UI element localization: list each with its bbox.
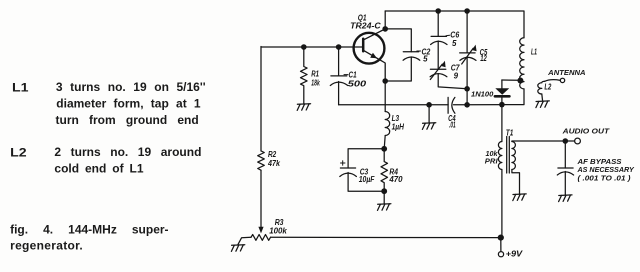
node bus ground tap [426, 102, 432, 108]
svg-text:ANTENNA: ANTENNA [547, 68, 585, 77]
inductor L2 [538, 80, 561, 101]
svg-text:C1: C1 [349, 70, 358, 79]
svg-text:470: 470 [388, 175, 403, 184]
wire: base bus from left column to transistor base [261, 46, 363, 48]
node +9V junction [498, 235, 504, 241]
ground (bus) [422, 123, 435, 130]
ground (L2) [536, 101, 549, 108]
node top bus / C6 [435, 8, 441, 14]
node L1 tap [517, 78, 523, 84]
wire: bottom supply bus [271, 236, 501, 238]
ground (T1 secondary) [513, 194, 526, 201]
svg-text:L1: L1 [531, 48, 537, 57]
wire: R3 left lead to ground [238, 237, 251, 245]
node top bus / C5 [464, 8, 470, 14]
wire: collector riser to top bus [384, 11, 386, 29]
node R4/C3 bottom junction [381, 188, 387, 194]
svg-text:diameter form, tap at 1: diameter form, tap at 1 [56, 97, 201, 111]
svg-text:L2: L2 [10, 146, 27, 160]
capacitor C3 (electrolytic) [340, 149, 384, 191]
wire: left column vertical [260, 47, 262, 151]
svg-text:R1: R1 [311, 69, 319, 78]
wire: ground bus (emitter side) [339, 104, 449, 106]
svg-text:L1: L1 [12, 81, 29, 95]
svg-text:1µH: 1µH [392, 123, 405, 132]
resistor R3 [251, 218, 287, 240]
audio out terminal [561, 126, 610, 144]
svg-text:( .001 TO .01 ): ( .001 TO .01 ) [578, 173, 632, 182]
secondary top lead to audio out [512, 140, 565, 143]
svg-text:18k: 18k [311, 78, 320, 87]
svg-text:500: 500 [348, 80, 367, 89]
capacitor C7 (variable) [430, 41, 467, 89]
ground (below R1) [297, 104, 310, 111]
node L3/R4/C3 junction [381, 146, 387, 152]
svg-text:+9V: +9V [506, 249, 523, 258]
wire: left column below R2 to wiper arrow [260, 170, 262, 228]
svg-text:.01: .01 [449, 120, 456, 129]
antenna terminal [547, 68, 585, 82]
+9V terminal [498, 238, 523, 259]
svg-text:R3: R3 [275, 218, 284, 227]
svg-text:3 turns no. 19 on 5/16'': 3 turns no. 19 on 5/16'' [56, 80, 206, 94]
capacitor C5 (variable) [460, 11, 488, 105]
svg-text:turn from ground end: turn from ground end [56, 113, 199, 127]
inductor L1 [520, 38, 538, 89]
primary lead [501, 105, 503, 142]
core [507, 137, 510, 174]
svg-text:PRI: PRI [485, 156, 499, 165]
inductor L3 [384, 81, 404, 149]
node audio/bypass junction [563, 138, 569, 144]
transistor Q1 [350, 14, 385, 81]
svg-text:10µF: 10µF [359, 175, 376, 184]
wire: junction to ground [383, 191, 385, 204]
svg-text:TR24-C: TR24-C [350, 21, 381, 30]
wire: detector bus to L1 bottom [467, 89, 524, 105]
capacitor C2 [385, 29, 431, 81]
capacitor C6 [431, 11, 460, 48]
secondary bottom lead [512, 170, 520, 195]
svg-text:1N100: 1N100 [471, 90, 494, 99]
capacitor C1 [330, 47, 367, 105]
node base-R1 junction [301, 44, 307, 50]
svg-text:L2: L2 [544, 82, 551, 91]
node collector junction [382, 26, 388, 32]
svg-text:cold end of L1: cold end of L1 [54, 162, 143, 176]
svg-text:regenerator.: regenerator. [10, 239, 83, 253]
primary winding [498, 142, 501, 170]
diode 1N100 [471, 80, 518, 105]
node C5/bus junction [464, 102, 470, 108]
svg-text:5: 5 [423, 55, 428, 64]
transformer T1 [485, 105, 566, 238]
text block left [10, 80, 206, 253]
ground (R3) [231, 245, 244, 252]
svg-text:fig. 4. 144-MHz super-: fig. 4. 144-MHz super- [10, 223, 168, 237]
capacitor AF bypass [557, 141, 635, 195]
node base-C1 junction [336, 44, 342, 50]
ground (AF bypass) [559, 195, 572, 202]
svg-text:2 turns no. 19 around: 2 turns no. 19 around [54, 145, 201, 159]
node diode/bus junction [499, 102, 505, 108]
svg-text:AUDIO OUT: AUDIO OUT [561, 126, 610, 135]
secondary winding [512, 142, 516, 170]
svg-text:R2: R2 [268, 150, 277, 159]
resistor R2 [258, 150, 281, 170]
potentiometer R3 wiper arrow [258, 227, 263, 234]
resistor R4 [381, 149, 403, 191]
svg-text:5: 5 [452, 39, 457, 48]
svg-text:100k: 100k [269, 227, 287, 236]
wire: ground drop [428, 105, 430, 123]
node emitter junction [382, 78, 388, 84]
wire: top bus to L1 [385, 11, 524, 38]
ground (R4/C3) [378, 204, 391, 211]
resistor R1 [301, 47, 321, 104]
svg-text:12: 12 [480, 54, 487, 63]
svg-text:9: 9 [454, 72, 459, 81]
svg-text:47k: 47k [267, 159, 280, 168]
capacitor C4 [448, 97, 467, 129]
node C7/C5 junction [464, 86, 470, 92]
